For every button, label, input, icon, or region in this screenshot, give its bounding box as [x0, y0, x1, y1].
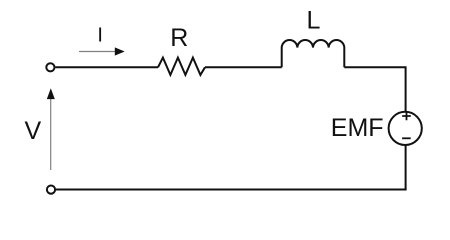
wire bottom [56, 189, 407, 191]
svg-text:R: R [170, 24, 188, 52]
voltage arrow V head [47, 88, 55, 99]
current arrow I head [115, 47, 125, 55]
wire top-left to resistor [56, 66, 159, 68]
wire EMF to bottom-right corner [405, 146, 407, 190]
minus mark [402, 137, 411, 139]
terminal top-left [46, 63, 54, 71]
svg-text:L: L [307, 7, 321, 35]
resistor R [158, 58, 205, 75]
svg-text:V: V [24, 117, 41, 145]
terminal bottom-left [47, 186, 55, 194]
voltage arrow V line [50, 98, 52, 170]
svg-text:EMF: EMF [331, 114, 384, 142]
wire inductor to top-right corner [344, 67, 405, 111]
inductor L [282, 40, 345, 67]
plus mark [402, 112, 411, 120]
current arrow I line [79, 51, 116, 53]
svg-text:I: I [97, 25, 103, 47]
wire resistor to inductor [205, 66, 282, 68]
EMF source U1 [389, 112, 422, 145]
